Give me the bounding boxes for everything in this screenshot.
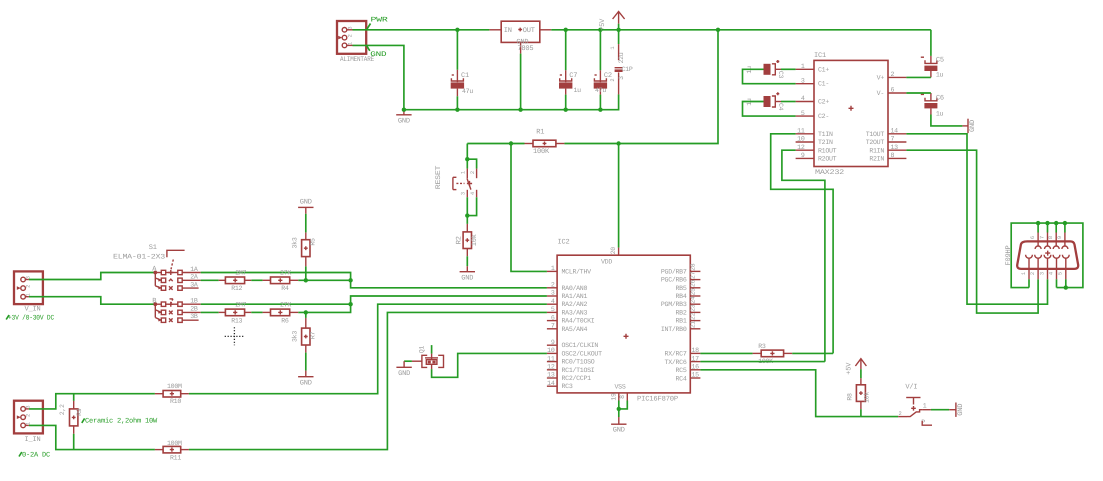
wire T1OUT to DB9 pin3 bbox=[906, 134, 1047, 304]
wire VDD down to PIC pin20 bbox=[618, 144, 620, 248]
resistor R9 2,2 shunt (vertical) bbox=[59, 394, 83, 450]
svg-text:RA0/AN0: RA0/AN0 bbox=[562, 285, 588, 292]
svg-text:S1: S1 bbox=[149, 244, 157, 252]
svg-text:12: 12 bbox=[547, 364, 555, 371]
junction +5V rail at C2 bbox=[598, 28, 602, 32]
junction VDD node bbox=[616, 141, 620, 145]
svg-text:GND: GND bbox=[398, 117, 410, 125]
pin 8 R2IN bbox=[869, 152, 906, 163]
junction GND rail at C1 bbox=[455, 108, 459, 112]
wire DB9 pin1 bbox=[1028, 279, 1030, 287]
wire DB9 pin4 bbox=[1056, 279, 1058, 287]
svg-text:Q1: Q1 bbox=[419, 346, 426, 354]
svg-text:6: 6 bbox=[551, 314, 555, 321]
svg-text:7: 7 bbox=[891, 136, 895, 143]
svg-text:VSS: VSS bbox=[615, 383, 626, 390]
svg-text:8: 8 bbox=[619, 395, 626, 399]
wire DB9 pin6 to shield bbox=[1037, 223, 1039, 232]
svg-text:R12: R12 bbox=[231, 285, 242, 292]
svg-text:2: 2 bbox=[470, 171, 476, 174]
PIC right rotated pin numbers 28-21 bbox=[689, 263, 696, 328]
DB9 pin 1 bbox=[1021, 255, 1033, 279]
pin 6 V- bbox=[877, 87, 907, 97]
svg-text:MAX232: MAX232 bbox=[815, 169, 844, 177]
wire R11 to PIC pin5 bbox=[189, 312, 547, 449]
capacitor C1P bbox=[610, 30, 633, 95]
svg-text:1: 1 bbox=[1021, 272, 1027, 275]
svg-text:12: 12 bbox=[797, 144, 805, 151]
wire PIC pin18 to R3 bbox=[700, 352, 752, 354]
svg-text:3k3: 3k3 bbox=[291, 237, 298, 248]
label 0-2A DC bbox=[19, 451, 50, 459]
svg-text:1: 1 bbox=[460, 171, 466, 174]
junction 1A/2A merge bbox=[348, 278, 352, 282]
svg-text:RB2: RB2 bbox=[676, 309, 687, 316]
capacitor C4 1u bbox=[746, 92, 784, 110]
svg-text:C3: C3 bbox=[777, 71, 784, 79]
pin 7 T2OUT bbox=[866, 136, 907, 147]
wire V/I row to switch bbox=[861, 416, 898, 418]
svg-text:PIC16F870P: PIC16F870P bbox=[637, 396, 678, 404]
svg-text:OSC2/CLKOUT: OSC2/CLKOUT bbox=[562, 350, 603, 357]
svg-text:26: 26 bbox=[689, 280, 696, 288]
svg-text:R1: R1 bbox=[536, 129, 544, 137]
S1 section B bbox=[152, 298, 201, 323]
wire I_IN pin3 to shunt rail bbox=[29, 394, 155, 409]
junction GND rail at input bbox=[402, 108, 406, 112]
svg-text:T2OUT: T2OUT bbox=[866, 139, 885, 146]
wire +5V rail corner down to R1 row bbox=[619, 30, 718, 144]
svg-text:1u: 1u bbox=[574, 87, 582, 94]
svg-text:I_IN: I_IN bbox=[25, 436, 41, 444]
svg-text:C1+: C1+ bbox=[818, 66, 829, 73]
wire Q1 top stub bbox=[431, 345, 433, 354]
wire R1 right to VDD node bbox=[564, 143, 618, 145]
svg-text:IC1: IC1 bbox=[814, 52, 826, 60]
wire R2 to ground bbox=[466, 256, 468, 266]
wire C5 to pin2 V+ bbox=[906, 76, 931, 78]
capacitor C1 47u bbox=[451, 30, 474, 110]
resistor R7 3K3 (vertical) bbox=[291, 312, 316, 352]
svg-text:18: 18 bbox=[692, 347, 700, 354]
svg-text:3: 3 bbox=[801, 77, 805, 84]
wire R3 to T1IN riser bbox=[792, 352, 833, 354]
wire C6 to pin6 V- bbox=[906, 92, 931, 94]
svg-text:2: 2 bbox=[899, 411, 902, 417]
svg-text:R8: R8 bbox=[846, 393, 853, 401]
svg-text:22u: 22u bbox=[618, 52, 625, 63]
ground symbol GND (C6, rotated) bbox=[962, 119, 977, 133]
svg-text:C5: C5 bbox=[936, 56, 944, 64]
svg-text:7: 7 bbox=[1039, 236, 1045, 239]
wire reset loop top bbox=[467, 159, 476, 168]
junction MCLR node bbox=[509, 141, 513, 145]
PIC right pin names bbox=[661, 268, 687, 382]
svg-text:PGD/RB7: PGD/RB7 bbox=[661, 268, 687, 275]
svg-text:R11: R11 bbox=[170, 454, 181, 461]
connector X1 DB9 F09HP bbox=[1005, 241, 1078, 269]
ground symbol GND (reset) bbox=[460, 266, 475, 282]
svg-text:4: 4 bbox=[551, 298, 555, 305]
svg-text:R3: R3 bbox=[758, 343, 766, 350]
svg-text:R6: R6 bbox=[281, 317, 289, 324]
wire V_IN pin1 to switch pole B bbox=[29, 297, 155, 305]
svg-text:+5V: +5V bbox=[599, 18, 607, 31]
svg-text:16: 16 bbox=[692, 364, 700, 371]
svg-text:27K: 27K bbox=[280, 301, 291, 308]
svg-text:C2+: C2+ bbox=[818, 99, 829, 106]
pin 3 C1- bbox=[796, 77, 829, 87]
svg-text:10k: 10k bbox=[863, 392, 870, 403]
junction dot reset bottom bbox=[465, 213, 469, 217]
pin 9 R2OUT bbox=[796, 152, 837, 163]
wire GND from connector pin1 down bbox=[353, 45, 404, 109]
svg-text:100M: 100M bbox=[167, 383, 182, 390]
wire 1A row to junction bbox=[201, 273, 351, 281]
svg-text:MCLR/THV: MCLR/THV bbox=[562, 268, 592, 275]
junction DB9 pin9 bbox=[1063, 221, 1067, 225]
svg-text:1u: 1u bbox=[936, 110, 944, 117]
junction dot reset top bbox=[465, 157, 469, 161]
pin 13 R1IN bbox=[869, 144, 906, 155]
svg-text:100K: 100K bbox=[533, 148, 550, 156]
wire I_IN pin1 to bottom rail bbox=[29, 425, 155, 449]
PIC right pins 18-15 stubs and numbers bbox=[690, 347, 700, 379]
wire VSS to ground bbox=[617, 401, 628, 418]
PIC left pins 1-14 stubs bbox=[547, 271, 557, 386]
wire T1IN loop to RX row bbox=[771, 134, 833, 354]
svg-text:RC3: RC3 bbox=[562, 383, 573, 390]
svg-text:11: 11 bbox=[547, 355, 555, 362]
wire DB9 pin9 to shield bbox=[1064, 223, 1066, 232]
svg-text:V-: V- bbox=[877, 90, 884, 97]
svg-text:47u: 47u bbox=[595, 87, 606, 94]
label Ceramic 2,2ohm 10W bbox=[82, 417, 158, 426]
wire DB9 pin5 bbox=[1065, 279, 1067, 287]
IC2 PIC16F870P box bbox=[557, 239, 690, 404]
resistor R4 27K bbox=[263, 269, 299, 292]
svg-text:RC5: RC5 bbox=[676, 367, 687, 374]
svg-text:C1P: C1P bbox=[622, 66, 633, 73]
svg-text:R5: R5 bbox=[309, 238, 316, 246]
resistor R6 27K bbox=[263, 301, 299, 324]
svg-text:RESET: RESET bbox=[435, 166, 443, 190]
DB9 pin 6 bbox=[1030, 233, 1041, 250]
DB9 pin 2 bbox=[1030, 255, 1042, 279]
svg-text:PGM/RB3: PGM/RB3 bbox=[661, 301, 687, 308]
svg-text:GND: GND bbox=[300, 379, 312, 387]
resistor R2 10k bbox=[455, 224, 479, 256]
svg-text:R7: R7 bbox=[309, 332, 316, 340]
sheet origin dotted cross bbox=[225, 327, 245, 345]
ground symbol GND (Q1) bbox=[396, 361, 411, 378]
svg-text:8: 8 bbox=[891, 152, 895, 159]
svg-text:1: 1 bbox=[610, 46, 616, 49]
svg-text:RX/RC7: RX/RC7 bbox=[665, 351, 687, 358]
svg-text:1: 1 bbox=[923, 402, 927, 409]
wire C4 to pin4 bbox=[781, 101, 796, 103]
wire R7 to ground bbox=[305, 353, 307, 371]
junction +5V symbol node bbox=[616, 28, 620, 32]
junction GND rail at 7805 bbox=[518, 108, 522, 112]
rotary switch S1 ELMA-01-2X3 bbox=[113, 244, 165, 262]
ground symbol GND (below R7) bbox=[298, 371, 313, 388]
svg-text:GND: GND bbox=[370, 51, 386, 59]
resistor R11 100M bbox=[155, 440, 189, 461]
ground symbol GND (above R5, flipped) bbox=[298, 199, 313, 214]
svg-text:15: 15 bbox=[692, 372, 700, 379]
wire DB9 pin8 to shield bbox=[1055, 223, 1057, 232]
label PWR bbox=[367, 17, 389, 30]
svg-text:Ceramic 2,2ohm 10W: Ceramic 2,2ohm 10W bbox=[85, 417, 158, 426]
voltage regulator 7805 bbox=[489, 21, 551, 53]
svg-text:INT/RB0: INT/RB0 bbox=[661, 326, 687, 333]
resistor R10 100M bbox=[155, 383, 189, 405]
svg-text:TX/RC6: TX/RC6 bbox=[665, 359, 687, 366]
svg-text:3B: 3B bbox=[190, 313, 198, 320]
svg-text:2,2: 2,2 bbox=[59, 404, 66, 415]
junction +5V rail corner feed bbox=[716, 28, 720, 32]
junction dot DB9 pin5 bbox=[1064, 285, 1068, 289]
svg-text:ELMA-01-2X3: ELMA-01-2X3 bbox=[113, 253, 165, 261]
label +3V /0-30V DC bbox=[6, 313, 54, 322]
resistor R8 10k (vertical) bbox=[846, 369, 870, 416]
svg-text:OSC1/CLKIN: OSC1/CLKIN bbox=[562, 342, 599, 349]
resonator Q1 bbox=[412, 346, 444, 369]
wire R1IN to DB9 pin2 bbox=[906, 150, 1038, 313]
wire Q1 bottom to PIC pin10 bbox=[432, 353, 547, 377]
svg-text:14: 14 bbox=[891, 128, 899, 135]
junction GND rail at C2 bbox=[598, 108, 602, 112]
svg-text:2: 2 bbox=[348, 34, 354, 37]
svg-text:3: 3 bbox=[618, 76, 625, 80]
svg-text:C4: C4 bbox=[777, 103, 784, 111]
svg-text:27K: 27K bbox=[280, 269, 291, 276]
svg-text:4: 4 bbox=[1048, 272, 1054, 275]
svg-text:21: 21 bbox=[689, 321, 696, 329]
wire PIC pin17 to R1OUT riser bbox=[700, 361, 825, 363]
svg-text:3: 3 bbox=[460, 192, 466, 195]
wire reset loop bottom bbox=[467, 197, 476, 215]
wire R6 to junction and up to 1B bbox=[298, 304, 350, 312]
wire 2B row start bbox=[201, 311, 219, 313]
pin 10 T2IN bbox=[796, 136, 833, 147]
pin 5 C2- bbox=[796, 110, 829, 120]
ground symbol GND (power input) bbox=[396, 110, 411, 126]
svg-text:GND: GND bbox=[613, 426, 625, 434]
connector V_IN bbox=[14, 271, 43, 313]
wire 1B row to junction bbox=[201, 303, 351, 305]
svg-text:+3V /0-30V DC: +3V /0-30V DC bbox=[8, 313, 54, 322]
wire GND rail under capacitors bbox=[404, 94, 619, 109]
svg-text:T2IN: T2IN bbox=[818, 139, 833, 146]
svg-text:R9: R9 bbox=[76, 408, 83, 416]
svg-text:RA4/T0CKI: RA4/T0CKI bbox=[562, 318, 595, 325]
resistor R3 100K bbox=[753, 343, 793, 365]
svg-text:2: 2 bbox=[1030, 272, 1036, 275]
svg-text:R13: R13 bbox=[231, 317, 242, 324]
svg-text:6: 6 bbox=[1030, 236, 1036, 239]
wire C6 bottom to ground bbox=[931, 115, 963, 126]
svg-text:ALIMENTARE: ALIMENTARE bbox=[340, 56, 374, 64]
junction 2A row at R5 bbox=[304, 278, 308, 282]
svg-text:C1: C1 bbox=[461, 72, 469, 80]
svg-text:V/I: V/I bbox=[905, 383, 917, 392]
svg-text:F09HP: F09HP bbox=[1005, 245, 1013, 265]
svg-text:RB1: RB1 bbox=[676, 318, 687, 325]
svg-text:3A: 3A bbox=[190, 281, 198, 288]
svg-text:2: 2 bbox=[26, 414, 32, 417]
svg-text:RA1/AN1: RA1/AN1 bbox=[562, 293, 588, 300]
svg-text:1A: 1A bbox=[190, 266, 198, 273]
wire C3 to pin1 bbox=[781, 68, 796, 70]
capacitor C3 1u bbox=[746, 60, 784, 78]
svg-text:C7: C7 bbox=[569, 72, 577, 80]
svg-text:R4: R4 bbox=[281, 285, 289, 292]
wire RA0 net to PIC pin2 bbox=[351, 280, 547, 288]
svg-text:19: 19 bbox=[610, 393, 617, 401]
svg-text:1: 1 bbox=[551, 265, 555, 272]
wire DB9 shield loop bbox=[1011, 223, 1083, 288]
svg-text:RA5/AN4: RA5/AN4 bbox=[562, 326, 588, 333]
svg-text:R10: R10 bbox=[170, 398, 181, 405]
svg-text:20: 20 bbox=[610, 247, 617, 255]
svg-text:13: 13 bbox=[891, 144, 899, 151]
svg-text:7: 7 bbox=[551, 323, 555, 330]
svg-text:23: 23 bbox=[689, 304, 696, 312]
pushbutton RESET bbox=[435, 166, 477, 197]
svg-text:RC4: RC4 bbox=[676, 375, 687, 382]
svg-text:T1IN: T1IN bbox=[818, 131, 833, 138]
wire MCLR net from R1 row to PIC pin1 bbox=[511, 144, 547, 272]
svg-text:GND: GND bbox=[398, 370, 410, 378]
svg-text:C2-: C2- bbox=[818, 113, 829, 120]
svg-text:14: 14 bbox=[547, 380, 555, 387]
svg-text:V+: V+ bbox=[877, 74, 885, 81]
PIC left pin names bbox=[562, 268, 603, 390]
wire DB9 pin7 to shield bbox=[1047, 223, 1049, 232]
svg-text:10k: 10k bbox=[470, 234, 479, 246]
svg-text:13: 13 bbox=[547, 372, 555, 379]
svg-text:T1OUT: T1OUT bbox=[866, 131, 885, 138]
svg-text:2B: 2B bbox=[190, 305, 198, 312]
svg-text:1: 1 bbox=[801, 63, 805, 70]
svg-text:7805: 7805 bbox=[517, 45, 533, 53]
DB9 pin 5 bbox=[1058, 255, 1070, 279]
svg-text:RC0/T1OSO: RC0/T1OSO bbox=[562, 359, 595, 366]
svg-text:R2: R2 bbox=[455, 236, 463, 244]
svg-text:2: 2 bbox=[551, 282, 555, 289]
svg-text:5: 5 bbox=[1058, 272, 1064, 275]
svg-text:22: 22 bbox=[689, 312, 696, 320]
svg-text:24: 24 bbox=[689, 296, 696, 304]
svg-text:2: 2 bbox=[891, 71, 895, 78]
svg-text:11: 11 bbox=[797, 128, 805, 135]
svg-text:IC2: IC2 bbox=[558, 239, 570, 247]
svg-text:3: 3 bbox=[1039, 272, 1045, 275]
svg-text:1u: 1u bbox=[936, 71, 944, 78]
junction GND rail at C7 bbox=[564, 108, 568, 112]
svg-text:GND: GND bbox=[969, 120, 977, 132]
wire R5 to ground (up) bbox=[305, 214, 307, 233]
svg-text:9: 9 bbox=[801, 152, 805, 159]
svg-text:RA3/AN3: RA3/AN3 bbox=[562, 309, 588, 316]
pin 2 V+ bbox=[877, 71, 907, 81]
svg-text:5: 5 bbox=[551, 306, 555, 313]
wire between R13 and R6 bbox=[251, 311, 262, 313]
svg-text:10: 10 bbox=[547, 347, 555, 354]
svg-text:1B: 1B bbox=[190, 298, 198, 305]
svg-text:9: 9 bbox=[1057, 236, 1063, 239]
junction DB9 pin8 bbox=[1054, 221, 1058, 225]
svg-text:R1OUT: R1OUT bbox=[818, 147, 837, 154]
svg-text:2M7: 2M7 bbox=[235, 301, 246, 308]
DB9 pin 9 bbox=[1057, 233, 1068, 250]
svg-text:0-2A DC: 0-2A DC bbox=[22, 451, 50, 459]
svg-text:3k3: 3k3 bbox=[291, 331, 298, 342]
DB9 pin 8 bbox=[1048, 233, 1059, 250]
pin 14 T1OUT bbox=[866, 128, 907, 139]
DB9 pin 3 bbox=[1039, 255, 1051, 279]
svg-text:100M: 100M bbox=[167, 440, 182, 447]
wire 2A row segments bbox=[201, 279, 219, 281]
pins 19/8 VSS bbox=[610, 393, 627, 401]
resistor R13 2M7 bbox=[219, 301, 252, 324]
wire PIC pin16 to V/I switch row bbox=[700, 370, 861, 417]
svg-text:3: 3 bbox=[551, 290, 555, 297]
pin 12 R1OUT bbox=[796, 144, 837, 155]
svg-text:RB5: RB5 bbox=[676, 285, 687, 292]
svg-text:25: 25 bbox=[689, 288, 696, 296]
wire 7805 GND to rail bbox=[520, 54, 522, 110]
wire C4 loop to pin5 bbox=[743, 102, 796, 117]
svg-text:28: 28 bbox=[689, 263, 696, 271]
svg-text:GND: GND bbox=[957, 404, 965, 416]
wire R1OUT loop to TX row bbox=[782, 150, 825, 361]
junction 2B row at R7 bbox=[304, 310, 308, 314]
junction +5V rail at C1 bbox=[455, 28, 459, 32]
svg-text:4: 4 bbox=[470, 192, 476, 195]
capacitor C5 1u bbox=[921, 30, 944, 79]
capacitor C2 47u bbox=[594, 30, 612, 110]
connector X? ALIMENTARE bbox=[337, 21, 374, 64]
wire between R12 and R4 bbox=[251, 279, 262, 281]
DB9 pin 4 bbox=[1048, 255, 1060, 279]
svg-text:9: 9 bbox=[551, 339, 555, 346]
resistor R12 2M7 bbox=[219, 269, 252, 292]
wire R4 to junctions bbox=[298, 279, 350, 281]
svg-text:IN: IN bbox=[504, 27, 512, 35]
svg-text:5: 5 bbox=[801, 110, 805, 117]
wire 7805 OUT rail to C5 bbox=[551, 29, 931, 31]
pin 20 VDD bbox=[610, 247, 619, 255]
wire V_IN pin3 to switch pole A bbox=[29, 273, 155, 280]
resistor R5 3K3 (vertical) bbox=[291, 232, 316, 280]
svg-text:2A: 2A bbox=[190, 274, 198, 281]
junction DB9 pin6 bbox=[1036, 221, 1040, 225]
wire switch to ground bbox=[931, 409, 949, 411]
svg-text:PGC/RB6: PGC/RB6 bbox=[661, 277, 687, 284]
resistor R1 100K bbox=[467, 129, 564, 157]
wire R10 to PIC pin4 bbox=[189, 304, 547, 394]
svg-text:8: 8 bbox=[1048, 236, 1054, 239]
wire C3 loop to pin3 bbox=[743, 69, 796, 83]
junction DB9 pin7 bbox=[1045, 221, 1049, 225]
wire Q1 left to ground bbox=[404, 360, 412, 362]
capacitor C7 1u bbox=[559, 30, 581, 110]
svg-text:6: 6 bbox=[891, 87, 895, 94]
junction +5V rail at C7 bbox=[564, 28, 568, 32]
